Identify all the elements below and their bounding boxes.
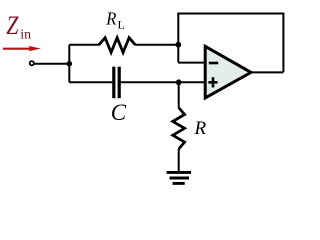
svg-text:C: C [111, 100, 127, 125]
svg-text:R: R [105, 9, 116, 29]
svg-text:in: in [20, 28, 31, 43]
svg-text:Z: Z [6, 11, 19, 40]
svg-text:R: R [194, 118, 207, 139]
svg-text:L: L [118, 17, 125, 31]
